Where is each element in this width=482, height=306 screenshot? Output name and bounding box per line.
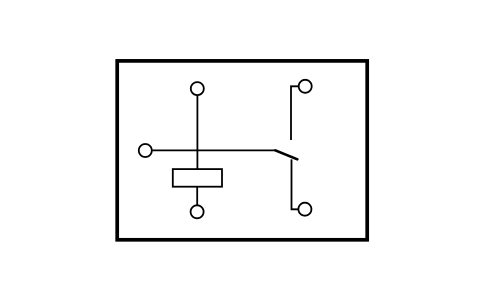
wire coil-top to coil [196, 96, 198, 169]
NC contact terminal (bottom right) [298, 203, 311, 216]
wire NO contact lead [291, 86, 298, 140]
NO contact terminal (top right) [299, 80, 312, 93]
switch blade [275, 150, 297, 159]
wire common to switch pivot [153, 149, 276, 151]
coil [173, 169, 222, 187]
coil terminal (top) [191, 82, 204, 95]
wire coil to coil-bottom terminal [196, 187, 198, 204]
relay body outline [117, 61, 367, 240]
common terminal [139, 144, 152, 157]
wire NC contact lead [292, 159, 298, 209]
coil terminal (bottom) [191, 205, 204, 218]
